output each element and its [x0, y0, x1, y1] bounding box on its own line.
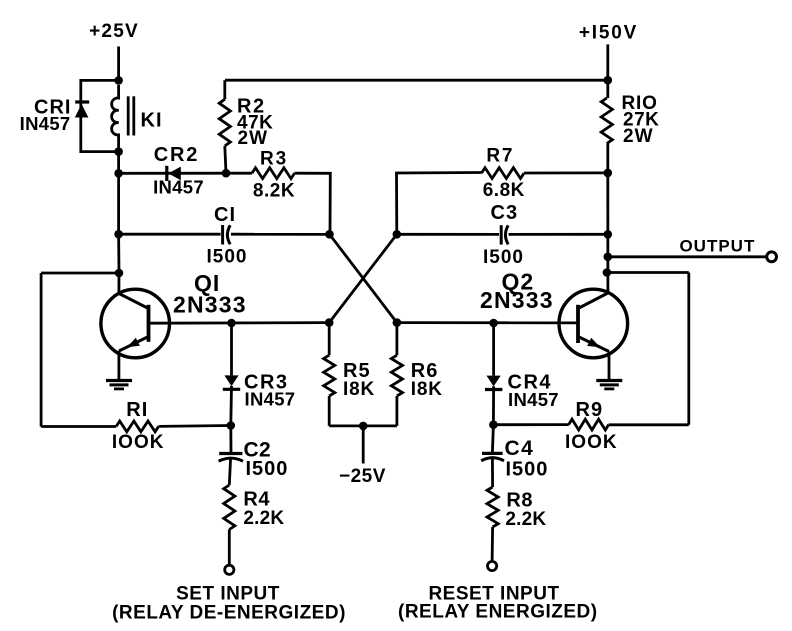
wire C4 top lead	[492, 425, 493, 453]
svg-text:(RELAY DE-ENERGIZED): (RELAY DE-ENERGIZED)	[112, 603, 346, 624]
wire top rail to +150V	[225, 79, 608, 82]
capacitor C4	[482, 452, 503, 455]
svg-text:2N333: 2N333	[480, 287, 554, 313]
diode CR1	[75, 100, 89, 103]
node OUTPUT junction	[604, 252, 613, 261]
terminal SET input circle	[225, 565, 234, 574]
diode CR2	[165, 166, 168, 181]
svg-text:2W: 2W	[238, 128, 269, 149]
transistor Q2 circle	[559, 289, 628, 358]
svg-text:+25V: +25V	[89, 21, 139, 42]
wire right feedback to R9	[609, 423, 689, 426]
wire right feedback top	[607, 271, 689, 274]
node C3 left junction	[393, 230, 402, 239]
wire CR4 bottom lead	[492, 386, 495, 425]
wire R2 top lead	[223, 80, 226, 99]
svg-text:2.2K: 2.2K	[505, 509, 546, 530]
wire diagonal C3-to-R5	[329, 234, 397, 322]
svg-text:R7: R7	[486, 146, 514, 167]
wire C3 line right	[509, 233, 608, 236]
wire R2 bottom lead	[225, 146, 226, 173]
transistor Q1 base bar	[147, 305, 151, 342]
svg-text:I8K: I8K	[411, 379, 443, 400]
svg-text:SET INPUT: SET INPUT	[176, 584, 280, 605]
wire R6 top lead	[395, 323, 398, 356]
resistor R8	[487, 487, 498, 527]
ground Q2	[596, 379, 622, 382]
transistor Q1 collector stroke	[119, 294, 149, 309]
wire R5 bottom lead	[328, 396, 331, 426]
svg-text:I500: I500	[246, 458, 289, 480]
node C3 right junction	[604, 230, 613, 239]
wire Q2 base line	[397, 321, 578, 324]
relay K1 core bars	[127, 96, 130, 135]
ground Q1	[106, 379, 132, 382]
node Q1 collector branch junction	[115, 269, 124, 278]
wire -25V stub	[362, 426, 365, 464]
terminal RESET input circle	[488, 561, 497, 570]
svg-text:IN457: IN457	[20, 113, 71, 134]
resistor R3	[252, 168, 295, 179]
wire R8 to RESET terminal	[491, 527, 494, 562]
wire diagonal C1-to-R6	[330, 234, 397, 322]
wire CR4 top lead	[492, 323, 495, 376]
svg-text:I500: I500	[506, 459, 549, 481]
node C1 left junction	[114, 230, 123, 239]
transistor Q2 base bar	[576, 305, 580, 343]
resistor R4	[224, 485, 235, 530]
wire +150V drop	[606, 44, 609, 98]
resistor R2	[219, 99, 230, 146]
wire R5 top lead	[328, 323, 331, 356]
wire R5-R6 bottom bus	[329, 424, 397, 427]
capacitor C3	[500, 225, 503, 244]
svg-text:CR2: CR2	[154, 144, 199, 166]
svg-text:2.2K: 2.2K	[243, 508, 284, 529]
svg-text:I500: I500	[483, 247, 524, 268]
node CR3 bottom junction	[227, 421, 236, 430]
wire right feedback vertical	[687, 273, 690, 425]
svg-text:IN457: IN457	[245, 389, 296, 410]
wire Q1 collector lead	[118, 273, 121, 294]
node top-left junction	[114, 76, 123, 85]
node CR2 line junction	[114, 169, 123, 178]
relay coil K1	[112, 85, 119, 152]
transistor Q1 circle	[101, 289, 170, 358]
svg-text:−25V: −25V	[339, 466, 386, 487]
wire R6 bottom lead	[395, 396, 398, 426]
diode CR3	[224, 375, 238, 386]
capacitor C1	[221, 225, 224, 245]
wire CR2 node to C1 node	[117, 173, 120, 234]
node CR1 bottom junction	[114, 147, 123, 156]
wire R9 to CR4 node	[493, 423, 568, 426]
wire Q2 emitter lead	[608, 352, 611, 380]
svg-text:C3: C3	[491, 202, 519, 224]
wire OUTPUT line	[608, 255, 767, 258]
diode CR4	[487, 376, 501, 387]
svg-text:6.8K: 6.8K	[483, 180, 525, 201]
node R5 top junction	[325, 318, 334, 327]
wire CR1 loop (left branch around K1)	[81, 80, 119, 151]
wire C1 line left	[119, 233, 221, 236]
wire Q1 emitter lead	[118, 351, 121, 380]
node CR3 top junction	[227, 319, 236, 328]
svg-text:I500: I500	[207, 247, 248, 268]
svg-text:R9: R9	[576, 399, 604, 421]
node -25V junction	[359, 422, 368, 431]
transistor Q1 emitter stroke	[119, 337, 149, 352]
wire CR3 bottom lead	[229, 386, 232, 426]
wire R1 to CR3 node	[159, 424, 231, 428]
wire R4 to SET terminal	[228, 530, 231, 566]
transistor Q1 emitter arrow	[127, 338, 140, 347]
resistor R6	[391, 355, 402, 396]
wire R10 bottom lead	[606, 144, 609, 173]
wire C1 line right	[231, 233, 330, 236]
node CR4 bottom junction	[489, 420, 498, 429]
wire CR2 line	[119, 172, 252, 175]
wire R7 left corner to C3 node	[397, 173, 482, 235]
wire CR3 top lead	[230, 323, 233, 375]
transistor Q2 collector stroke	[578, 293, 608, 309]
resistor R5	[324, 355, 335, 396]
svg-text:KI: KI	[141, 110, 163, 132]
svg-text:+I50V: +I50V	[579, 23, 638, 44]
wire R7 line right	[524, 171, 608, 174]
wire left feedback to R1	[41, 425, 116, 428]
svg-text:RI: RI	[126, 399, 148, 421]
transistor Q2 emitter arrow	[587, 338, 600, 347]
svg-text:IN457: IN457	[508, 389, 559, 410]
wire C2 to R4	[229, 458, 230, 485]
resistor R7	[482, 168, 525, 179]
capacitor C2	[219, 452, 242, 455]
wire K1 to CR2 node	[117, 152, 120, 174]
resistor R9	[569, 419, 609, 430]
transistor Q2 emitter stroke	[578, 337, 609, 352]
svg-text:OUTPUT: OUTPUT	[679, 237, 755, 256]
wire Q1 base line	[149, 321, 330, 324]
wire C3 line left	[397, 233, 499, 236]
node +150V rail junction	[604, 76, 613, 85]
resistor R10	[601, 98, 612, 144]
svg-text:CI: CI	[214, 204, 236, 226]
svg-text:C4: C4	[505, 437, 535, 460]
resistor R1	[116, 421, 158, 432]
wire +25V drop	[117, 47, 120, 81]
node R2 bottom junction	[222, 169, 231, 178]
node R6 top junction	[393, 318, 402, 327]
svg-text:IOOK: IOOK	[565, 432, 618, 453]
svg-text:IN457: IN457	[153, 177, 204, 198]
svg-text:8.2K: 8.2K	[253, 181, 295, 202]
svg-text:I8K: I8K	[343, 379, 375, 400]
wire C1 node to collector branch	[117, 234, 120, 273]
svg-text:R3: R3	[260, 149, 288, 170]
svg-text:IOOK: IOOK	[112, 432, 165, 453]
node R7 right junction	[604, 169, 613, 178]
node CR4 top junction	[489, 319, 498, 328]
wire left feedback vertical	[40, 273, 43, 427]
svg-text:2N333: 2N333	[173, 292, 247, 318]
node right feedback junction	[603, 268, 612, 277]
wire left feedback top	[41, 272, 119, 275]
wire C4 to R8	[491, 458, 494, 487]
node C1 right junction	[325, 230, 334, 239]
svg-text:(RELAY ENERGIZED): (RELAY ENERGIZED)	[398, 602, 598, 623]
wire R3 to C1 node	[295, 173, 331, 234]
wire main right vertical	[606, 173, 609, 293]
wire C2 top lead	[229, 426, 232, 453]
svg-text:2W: 2W	[623, 126, 654, 147]
terminal OUTPUT circle	[767, 252, 777, 262]
